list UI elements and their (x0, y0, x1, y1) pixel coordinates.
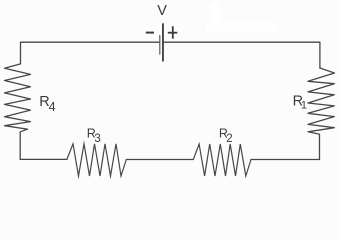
svg-text:2: 2 (226, 133, 232, 145)
battery V long plate (positive) (162, 23, 164, 61)
resistor R2 (193, 144, 251, 176)
wire bottom-left segment (20, 158, 67, 160)
battery plus sign (168, 32, 178, 34)
resistor R4 (5, 64, 31, 159)
resistor R1 (308, 68, 335, 159)
svg-text:1: 1 (301, 99, 307, 111)
resistor R3 (67, 144, 126, 176)
battery minus sign (146, 32, 154, 34)
svg-text:V: V (157, 3, 167, 19)
wire top-left segment (21, 42, 160, 64)
wire bottom-right segment (251, 159, 320, 161)
wire bottom-middle segment (126, 159, 193, 161)
faint white-out artifact (206, 3, 276, 31)
battery V short plate (negative) (159, 35, 160, 55)
wire top-right segment (164, 42, 320, 68)
svg-text:3: 3 (94, 133, 100, 145)
svg-text:4: 4 (49, 100, 56, 114)
